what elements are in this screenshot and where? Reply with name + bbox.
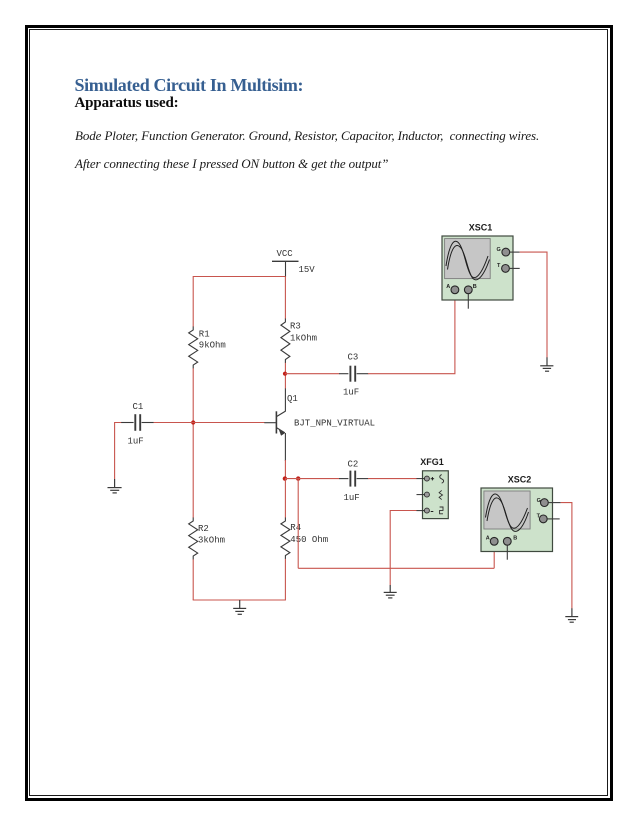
svg-text:C3: C3	[348, 352, 359, 362]
power VCC	[272, 261, 299, 277]
wire bottom net down to ground G3	[389, 568, 391, 585]
VCC label	[277, 249, 294, 259]
ground G2	[233, 600, 246, 614]
wire R3 top	[284, 277, 286, 319]
ground G5	[565, 608, 578, 622]
wire C1 left to ground	[115, 423, 122, 480]
wire bottom net horizontal	[298, 567, 494, 569]
ground G4	[540, 357, 553, 371]
wire C1 to base	[154, 422, 265, 424]
node collector junction	[283, 372, 287, 376]
wire XSC1 G stub	[510, 251, 520, 253]
wire R1 top	[192, 276, 194, 327]
svg-text:15V: 15V	[299, 265, 316, 275]
wire top rail	[193, 276, 285, 278]
svg-text:R1: R1	[199, 330, 210, 340]
wire XSC2 T stub	[547, 518, 559, 520]
wire collector node to C3	[285, 373, 339, 375]
wire R3 bottom to collector	[284, 363, 286, 389]
wire emitter node to C2	[285, 478, 339, 480]
wire R4 bottom	[284, 559, 286, 600]
svg-text:BJT_NPN_VIRTUAL: BJT_NPN_VIRTUAL	[294, 418, 375, 428]
svg-text:3kOhm: 3kOhm	[198, 535, 225, 545]
wire R1 bottom to base node	[192, 368, 194, 517]
C3 value 1uF	[343, 388, 359, 398]
node emitter junction	[283, 476, 287, 480]
ground G1	[108, 479, 122, 493]
svg-text:R2: R2	[198, 524, 209, 534]
R1 label	[199, 330, 210, 340]
capacitor C1	[121, 414, 154, 431]
R4 label	[290, 523, 301, 533]
node emitter junction 2	[296, 476, 300, 480]
R2 value 3kOhm	[198, 535, 225, 545]
svg-text:XSC1: XSC1	[469, 222, 493, 232]
svg-text:1kOhm: 1kOhm	[290, 334, 317, 344]
resistor R4	[281, 518, 290, 559]
function generator XFG1	[417, 471, 449, 519]
wire bottom net up to XFG1 minus	[390, 511, 417, 569]
svg-text:A: A	[446, 284, 450, 290]
XSC2 label	[508, 474, 532, 484]
capacitor C2	[339, 471, 368, 487]
svg-text:XSC2: XSC2	[508, 474, 532, 484]
R4 value 450 Ohm	[290, 535, 328, 545]
svg-text:1uF: 1uF	[128, 436, 144, 446]
C1 label	[133, 402, 144, 412]
wire XSC1 B stub	[467, 294, 469, 309]
oscilloscope XSC1	[442, 236, 513, 300]
XSC1 label	[469, 222, 493, 232]
wire XSC2 G to ground	[561, 503, 572, 609]
svg-text:B: B	[473, 284, 477, 290]
wire bottom rail	[193, 599, 286, 601]
C2 value 1uF	[344, 493, 360, 503]
15V value label	[299, 265, 316, 275]
Q1 label	[287, 394, 298, 404]
wire C2 to XFG1 plus	[368, 478, 417, 480]
svg-text:1uF: 1uF	[344, 493, 360, 503]
svg-text:Q1: Q1	[287, 394, 298, 404]
wire emitter down	[284, 460, 286, 479]
resistor R2	[189, 518, 198, 560]
XFG1 label	[420, 457, 444, 467]
wire XSC2 G stub	[549, 502, 561, 504]
R3 value 1kOhm	[290, 334, 317, 344]
Q1 type label BJT_NPN_VIRTUAL	[294, 418, 375, 428]
wire XSC2 A to bottom net	[493, 546, 495, 568]
R3 label	[290, 322, 301, 332]
wire C3 to XSC1 A	[368, 294, 455, 373]
oscilloscope XSC2	[481, 488, 553, 552]
R1 value 9kOhm	[199, 341, 226, 351]
wire emitter node2 down to bottom net	[297, 479, 299, 569]
svg-text:C1: C1	[133, 402, 144, 412]
C2 label	[348, 459, 359, 469]
svg-text:G: G	[537, 498, 541, 504]
capacitor C3	[339, 366, 368, 382]
wire XSC2 B stub	[506, 545, 508, 559]
svg-text:9kOhm: 9kOhm	[199, 341, 226, 351]
svg-text:B: B	[513, 536, 517, 542]
node base junction	[191, 420, 195, 424]
wire XSC1 T stub	[510, 267, 520, 269]
svg-text:450 Ohm: 450 Ohm	[290, 535, 328, 545]
C3 label	[348, 352, 359, 362]
wire R2 bottom	[192, 559, 194, 600]
svg-text:R4: R4	[290, 523, 301, 533]
transistor Q1	[264, 388, 285, 461]
resistor R3	[281, 319, 290, 364]
R2 label	[198, 524, 209, 534]
wire XSC1 G to ground	[520, 252, 547, 357]
svg-text:G: G	[497, 247, 501, 253]
svg-text:VCC: VCC	[277, 249, 294, 259]
svg-text:A: A	[486, 536, 490, 542]
svg-text:XFG1: XFG1	[420, 457, 444, 467]
svg-text:1uF: 1uF	[343, 388, 359, 398]
ground G3	[384, 585, 397, 598]
svg-text:C2: C2	[348, 459, 359, 469]
resistor R1	[189, 327, 198, 369]
svg-text:R3: R3	[290, 322, 301, 332]
wire emitter node to R4	[284, 479, 286, 518]
C1 value 1uF	[128, 436, 144, 446]
